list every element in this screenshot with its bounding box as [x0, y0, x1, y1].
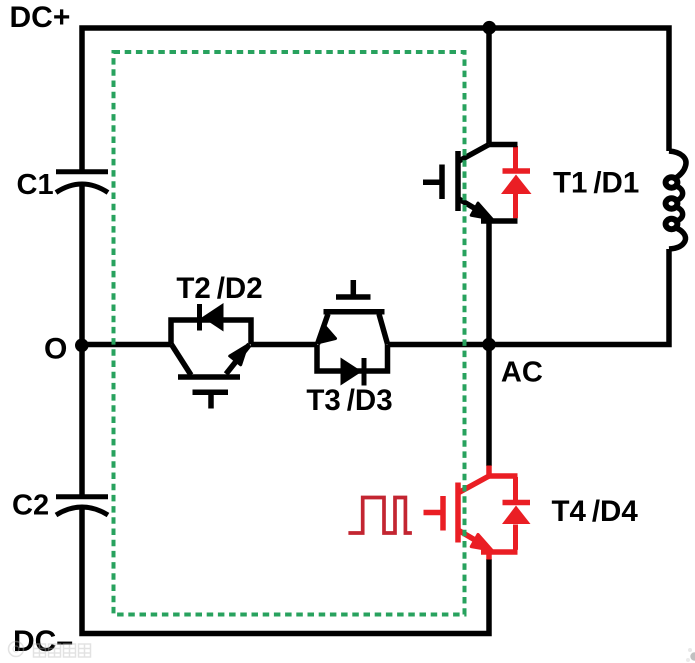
capacitor C2: [56, 497, 108, 515]
wire AC rail mid: [486, 221, 492, 466]
label C1: [17, 169, 54, 201]
capacitor C1: [56, 172, 108, 193]
wire left rail middle segment: [79, 184, 85, 497]
corner artifact: [686, 648, 695, 662]
svg-text:T1 /D1: T1 /D1: [553, 167, 639, 200]
node O: [75, 339, 89, 353]
label C2: [12, 489, 49, 521]
wire left rail bottom + bottom rail + AC rail lower stub: [82, 507, 489, 634]
transistor Q T2 (IGBT) with box: [171, 320, 251, 409]
label T4/D4: [552, 495, 639, 528]
wire AC rail top: [486, 28, 492, 144]
svg-text:C2: C2: [12, 489, 49, 521]
label T1/D1: [553, 167, 639, 200]
label T3/D3: [306, 384, 392, 417]
svg-text:C1: C1: [17, 169, 54, 201]
diode D2: [200, 303, 224, 332]
svg-text:O: O: [44, 332, 67, 365]
wire O rail segment 2: [251, 342, 317, 348]
svg-text:AC: AC: [501, 356, 543, 388]
wire right rail lower + AC output wire: [489, 249, 669, 345]
wire O rail segment 1: [82, 342, 171, 348]
dashed boundary box: [114, 52, 465, 615]
diode D1: [501, 146, 532, 218]
transistor Q T3 (IGBT) with box: [317, 280, 388, 371]
label O: [44, 332, 67, 365]
diode D3: [341, 358, 365, 386]
svg-text:DC+: DC+: [10, 1, 71, 34]
svg-text:T2 /D2: T2 /D2: [176, 272, 262, 305]
node junction top: [483, 21, 497, 35]
label DC-: [13, 625, 73, 658]
label AC: [501, 356, 543, 388]
wire O rail segment 3: [388, 342, 490, 348]
inductor load L: [666, 151, 686, 249]
transistor Q T1 (IGBT): [423, 145, 518, 222]
transistor Q T4 (IGBT, red): [424, 466, 518, 560]
diode D4: [502, 477, 531, 550]
node AC: [482, 338, 496, 352]
wire left rail top segment: [82, 28, 669, 170]
label T2/D2: [176, 272, 262, 305]
gate pulse waveform: [348, 498, 412, 534]
svg-text:T4 /D4: T4 /D4: [552, 495, 639, 528]
watermark: [9, 642, 91, 658]
label DC+: [10, 1, 71, 34]
svg-text:T3 /D3: T3 /D3: [306, 384, 392, 417]
